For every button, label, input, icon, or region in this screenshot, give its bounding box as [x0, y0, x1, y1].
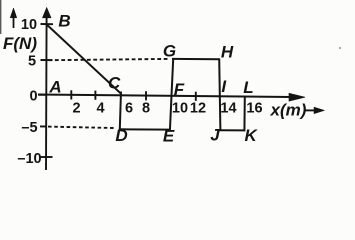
x tick 8 [145, 91, 147, 100]
svg-text:A: A [48, 78, 61, 97]
svg-text:E: E [163, 127, 175, 146]
svg-text:–5: –5 [21, 120, 37, 136]
svg-text:H: H [221, 43, 234, 62]
y-axis [43, 8, 52, 171]
svg-text:6: 6 [125, 101, 133, 117]
y tick 0 [39, 94, 46, 96]
svg-text:10: 10 [21, 17, 37, 33]
segment J to K (bottom at -5) [220, 129, 245, 131]
svg-text:L: L [243, 78, 253, 97]
svg-text:B: B [58, 12, 70, 31]
svg-text:x(m): x(m) [270, 101, 307, 120]
x-axis [38, 93, 305, 101]
x tick 4 [94, 91, 96, 100]
dashed line at -5 from axis to D [48, 127, 114, 128]
svg-text:I: I [221, 77, 227, 96]
arrow after x(m) [304, 107, 325, 114]
svg-text:16: 16 [246, 101, 262, 117]
y tick 10 [41, 23, 54, 25]
dashed line at +5 from axis to G [49, 59, 171, 60]
segment D to E (bottom at -5) [119, 128, 170, 130]
svg-text:–10: –10 [17, 151, 41, 167]
segment C to D (vertical at x=6) [120, 92, 121, 130]
svg-text:5: 5 [28, 54, 36, 70]
left edge scan artifact [0, 0, 2, 34]
x tick 2 [70, 90, 72, 99]
svg-text:0: 0 [29, 89, 37, 105]
svg-text:14: 14 [220, 101, 236, 117]
svg-text:D: D [115, 126, 127, 145]
svg-text:F(N): F(N) [3, 34, 37, 53]
svg-text:10: 10 [172, 101, 188, 117]
svg-text:8: 8 [142, 101, 150, 117]
svg-text:4: 4 [96, 101, 104, 117]
scan speck [339, 47, 341, 49]
F-axis small up-arrow glyph [10, 8, 17, 28]
segment H through I to J (vertical at x=14) [219, 58, 220, 130]
svg-text:2: 2 [72, 101, 80, 117]
segment G to H (top at +5) [172, 58, 219, 60]
svg-text:C: C [108, 74, 121, 93]
y tick -5 [40, 125, 47, 127]
svg-text:J: J [210, 126, 220, 145]
svg-text:K: K [244, 126, 258, 145]
segment K to L (vertical at x=16) [243, 98, 245, 132]
svg-text:G: G [163, 42, 176, 61]
segment E through F to G (vertical at x=10) [170, 59, 173, 131]
segment B to C (diagonal) [47, 25, 121, 94]
y tick -10 [41, 156, 53, 158]
svg-text:12: 12 [190, 101, 206, 117]
x tick 12 [195, 92, 197, 101]
svg-text:F: F [174, 80, 185, 99]
y tick 5 [41, 59, 53, 61]
